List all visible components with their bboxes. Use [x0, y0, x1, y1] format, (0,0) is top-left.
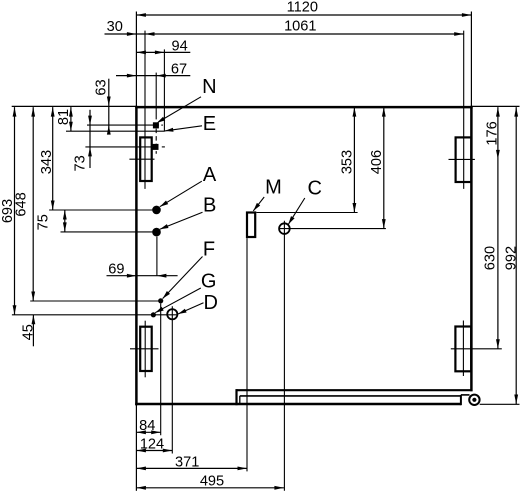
label M	[265, 177, 282, 199]
svg-text:84: 84	[139, 418, 155, 434]
tray inner line	[240, 395, 461, 397]
left top mounting bracket	[140, 137, 152, 181]
extension line lower square horizontal	[85, 146, 164, 148]
dimension 63	[94, 79, 111, 135]
dimension 343	[39, 107, 55, 210]
svg-text:G: G	[201, 271, 217, 293]
extension line points G and D horizontal	[12, 314, 178, 316]
left bottom bracket centerline horizontal	[130, 348, 159, 350]
right edge extension up	[470, 12, 472, 108]
label N	[202, 76, 216, 98]
point F	[158, 298, 163, 303]
dimension 45	[20, 315, 36, 347]
svg-text:63: 63	[94, 79, 110, 95]
dimension 353	[339, 107, 356, 212]
dimension 406	[369, 107, 386, 229]
label D leader	[178, 303, 204, 314]
panel bottom edge	[135, 403, 461, 406]
dimension 73	[72, 110, 92, 172]
point G	[151, 312, 156, 317]
dimension 124	[136, 436, 172, 452]
extension line point F vertical	[160, 303, 162, 435]
svg-text:E: E	[203, 113, 216, 135]
top edge extension right	[471, 105, 519, 107]
left edge extension down	[135, 404, 137, 491]
tray left cap outer	[235, 389, 237, 405]
extension line point B horizontal	[61, 231, 155, 233]
point B	[152, 228, 161, 237]
right top mounting bracket	[456, 137, 472, 182]
svg-text:81: 81	[56, 109, 72, 125]
label B	[203, 195, 216, 217]
label C	[307, 178, 321, 200]
extension line x145 bracket centerline	[144, 31, 146, 189]
svg-text:N: N	[202, 76, 216, 98]
dimension 94	[136, 38, 190, 54]
svg-text:630: 630	[482, 246, 498, 270]
svg-text:F: F	[203, 239, 215, 261]
svg-text:75: 75	[36, 214, 52, 230]
lower square	[153, 144, 159, 150]
point N square	[153, 122, 159, 128]
dimension 992	[503, 107, 519, 404]
svg-text:992: 992	[503, 246, 519, 270]
left bottom bracket centerline vertical	[144, 321, 146, 378]
svg-text:B: B	[203, 195, 216, 217]
dimension 69	[107, 261, 178, 277]
dimension 371	[136, 454, 247, 470]
label D	[203, 292, 217, 314]
dimension 176 and 630 shared line	[482, 107, 500, 349]
dimension 75	[36, 210, 67, 232]
tray top line	[237, 389, 473, 391]
svg-text:124: 124	[140, 436, 164, 452]
extension line point D vertical	[171, 306, 173, 453]
dimension 1120	[136, 0, 471, 17]
svg-text:353: 353	[339, 150, 355, 174]
right bottom bracket centerline horizontal	[451, 348, 502, 350]
extension line point E horizontal	[66, 130, 165, 132]
panel right edge	[470, 106, 473, 391]
dimension 648	[13, 107, 35, 301]
bottom extension to 992	[480, 403, 520, 405]
label E	[203, 113, 216, 135]
dimension 81	[56, 107, 73, 131]
extension line point A horizontal	[49, 209, 154, 211]
svg-text:69: 69	[108, 261, 124, 277]
svg-text:73: 73	[72, 155, 88, 171]
svg-text:M: M	[265, 177, 282, 199]
left top bracket centerline horizontal	[129, 158, 154, 160]
extension line x463 right bracket centerline	[463, 31, 465, 189]
right top bracket centerline horizontal	[449, 158, 475, 160]
dimension 84	[136, 418, 160, 434]
svg-text:495: 495	[200, 474, 224, 490]
svg-text:C: C	[307, 178, 321, 200]
roller wheel	[469, 395, 479, 405]
svg-text:67: 67	[171, 62, 187, 78]
label F leader	[163, 257, 203, 299]
extension line point N horizontal	[87, 124, 163, 126]
label M leader	[253, 197, 264, 211]
svg-text:406: 406	[369, 150, 385, 174]
extension line bracket M to 353	[256, 212, 357, 214]
right bottom mounting bracket	[455, 327, 471, 372]
left edge extension up	[135, 12, 137, 108]
dimension 30	[105, 19, 146, 36]
roller mount line	[461, 394, 470, 396]
top edge extension left	[12, 105, 137, 107]
bracket M slot	[247, 213, 255, 238]
extension line bracket M vertical	[246, 238, 248, 471]
svg-text:1061: 1061	[284, 18, 316, 34]
dimension 67	[116, 62, 190, 78]
dimension 1061	[145, 18, 464, 36]
left bottom mounting bracket	[140, 327, 152, 371]
svg-text:D: D	[203, 292, 217, 314]
panel top edge	[135, 106, 473, 109]
label N leader	[157, 97, 201, 123]
label A	[203, 164, 217, 186]
hole D circle	[167, 309, 177, 319]
svg-text:176: 176	[484, 121, 500, 145]
svg-text:94: 94	[171, 38, 187, 54]
point A	[152, 206, 161, 215]
extension line point C to 406	[279, 228, 386, 230]
tray right wall	[460, 395, 462, 405]
label F	[203, 239, 215, 261]
svg-text:371: 371	[175, 454, 199, 470]
label B leader	[160, 212, 203, 229]
dimension 495	[136, 474, 284, 490]
dimension 693	[0, 107, 16, 315]
tray left cap inner	[239, 396, 241, 404]
panel left edge	[135, 106, 138, 405]
extension line x164 to point E	[163, 49, 165, 131]
svg-text:1120: 1120	[287, 0, 318, 16]
extension line point B vertical	[156, 237, 158, 276]
extension line x156 to point N	[155, 73, 157, 120]
label E leader	[165, 126, 202, 132]
svg-text:30: 30	[107, 19, 123, 35]
dashed centerline through squares	[155, 129, 157, 154]
svg-text:648: 648	[13, 192, 29, 216]
label G leader	[155, 288, 201, 313]
label G	[201, 271, 217, 293]
svg-text:45: 45	[20, 324, 36, 340]
svg-text:A: A	[203, 164, 217, 186]
label C leader	[288, 198, 305, 224]
extension line point F horizontal	[30, 300, 159, 302]
right bottom bracket centerline vertical	[462, 321, 464, 377]
extension line point C vertical	[283, 221, 285, 491]
svg-text:343: 343	[39, 150, 55, 174]
label A leader	[160, 181, 202, 207]
hole C circle	[279, 223, 290, 234]
